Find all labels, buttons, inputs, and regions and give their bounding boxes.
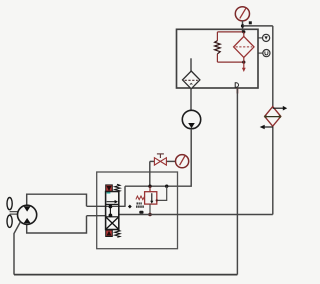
drain port stub [236, 88, 238, 93]
node P line at pilot [165, 185, 168, 188]
solenoid B (bottom) [106, 230, 113, 236]
wire cooler riser lower [272, 126, 274, 215]
motor loop wire lower [27, 216, 87, 233]
wire tank top to cooler riser [243, 25, 273, 27]
wire work line B / tank return [87, 215, 107, 217]
motor loop wire upper [27, 194, 87, 206]
centre position connector [109, 205, 113, 218]
wire needle valve branch riser [149, 161, 151, 186]
solenoid A spring [115, 184, 120, 192]
pressure gauge PG1 (top) [235, 7, 249, 21]
wire gauge stem [242, 21, 244, 32]
wire out of return filter [243, 57, 245, 62]
reservoir tank T1 [177, 29, 259, 88]
suction pipe inside tank [190, 58, 192, 71]
wire work line A [87, 205, 126, 207]
tag square marker [249, 21, 252, 24]
wire P riser to valve [124, 186, 126, 207]
fan blades [7, 198, 12, 228]
directional valve DV1 body [106, 192, 119, 230]
bottom drain rail wire [14, 274, 237, 276]
return filter F1 [234, 36, 254, 57]
relief pilot line [157, 186, 167, 200]
wire pump pressure line [125, 129, 191, 187]
value label SET 3000 PSI [136, 202, 144, 213]
position 3 crossed arrows [106, 217, 118, 229]
wire cooler riser upper [272, 26, 274, 107]
air flow arrow in [260, 125, 273, 130]
solenoid A (top) [106, 185, 113, 192]
node bypass bottom [242, 61, 245, 64]
needle valve NV1 [154, 154, 166, 165]
wire into return filter [243, 32, 245, 37]
node bypass top [242, 30, 245, 33]
hydraulic motor M1 [18, 205, 37, 224]
level gauge LG1 [258, 50, 270, 57]
heat exchanger HX1 [264, 107, 281, 127]
discharge arrow into tank [242, 62, 246, 72]
fan shaft [10, 212, 18, 214]
solenoid B spring [115, 230, 120, 238]
return filter bypass loop [217, 32, 243, 62]
wire tank to pump [190, 88, 192, 110]
node relief outlet on T line [148, 213, 152, 217]
wire to needle valve [150, 160, 155, 162]
position 1 flow arrow [107, 200, 118, 204]
pressure gauge PG2 (manifold) [176, 155, 189, 168]
motor case drain wire [14, 222, 20, 275]
suction strainer F2 [183, 71, 200, 89]
pilot tap node [156, 199, 158, 201]
relief outlet wire [149, 204, 151, 215]
diamond bullet [128, 205, 132, 209]
breather cap B1 [258, 34, 270, 41]
port label D [235, 83, 238, 87]
bypass spring [215, 41, 221, 54]
drain riser wire to tank D [236, 89, 238, 275]
pump P1 [182, 110, 200, 128]
node P line at relief inlet [148, 185, 151, 188]
relief spring [136, 196, 145, 200]
indicator mark teal [107, 192, 111, 194]
node at gauge tee [241, 24, 244, 27]
air flow arrow out [273, 106, 288, 111]
relief valve RV1 [145, 192, 157, 204]
relief valve RV1 inlet [149, 186, 151, 192]
manifold enclosure [97, 172, 178, 249]
wire needle valve to gauge [166, 160, 175, 162]
